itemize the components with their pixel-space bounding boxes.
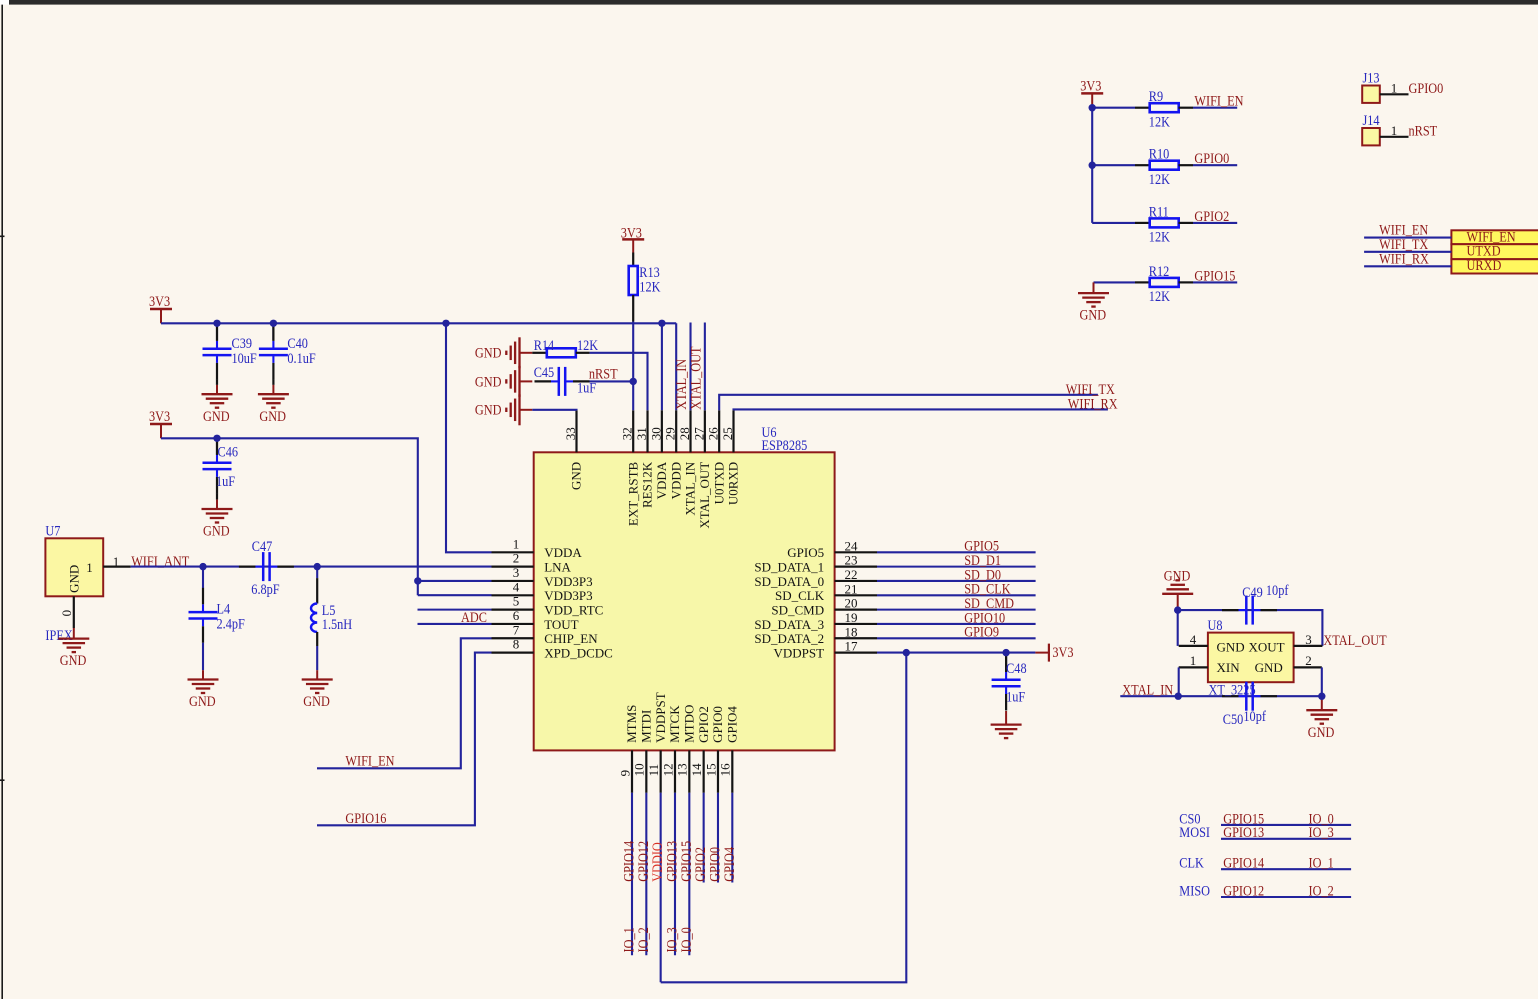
svg-text:U8: U8 <box>1208 617 1223 633</box>
svg-text:3V3: 3V3 <box>149 408 170 424</box>
svg-text:GND: GND <box>1308 724 1335 740</box>
svg-text:20: 20 <box>845 596 858 611</box>
svg-text:GPIO12: GPIO12 <box>1223 882 1264 898</box>
svg-text:C40: C40 <box>287 335 308 351</box>
svg-text:R14: R14 <box>534 337 555 353</box>
svg-text:C50: C50 <box>1223 711 1244 727</box>
svg-text:IO_3: IO_3 <box>1309 824 1334 840</box>
svg-text:26: 26 <box>706 427 721 441</box>
svg-text:WIFI_EN: WIFI_EN <box>1194 93 1243 109</box>
svg-text:VDDA: VDDA <box>544 545 582 560</box>
svg-text:1: 1 <box>113 554 120 569</box>
svg-text:3V3: 3V3 <box>621 224 642 240</box>
svg-text:IO_0: IO_0 <box>678 927 694 952</box>
svg-text:TOUT: TOUT <box>544 617 578 632</box>
svg-text:1.5nH: 1.5nH <box>322 616 352 632</box>
svg-text:12K: 12K <box>1149 171 1170 187</box>
svg-text:21: 21 <box>845 581 858 596</box>
svg-text:R10: R10 <box>1149 145 1170 161</box>
svg-text:XTAL_OUT: XTAL_OUT <box>1323 632 1387 648</box>
svg-text:U0TXD: U0TXD <box>711 462 726 505</box>
svg-text:SD_DATA_3: SD_DATA_3 <box>754 617 824 632</box>
svg-text:GPIO16: GPIO16 <box>345 810 386 826</box>
svg-text:XT_3225: XT_3225 <box>1209 681 1256 697</box>
svg-text:9: 9 <box>617 770 632 777</box>
svg-text:XTAL_OUT: XTAL_OUT <box>687 346 703 410</box>
svg-text:R12: R12 <box>1149 263 1170 279</box>
svg-text:13: 13 <box>675 763 690 776</box>
svg-text:1uF: 1uF <box>216 473 235 489</box>
svg-text:1uF: 1uF <box>1006 688 1025 704</box>
svg-text:WIFI_EN: WIFI_EN <box>345 752 394 768</box>
svg-text:12K: 12K <box>1149 113 1170 129</box>
svg-text:WIFI_RX: WIFI_RX <box>1379 250 1429 266</box>
svg-text:VDDD: VDDD <box>668 462 683 500</box>
svg-text:J13: J13 <box>1363 69 1380 85</box>
svg-text:GPIO4: GPIO4 <box>725 706 740 743</box>
svg-text:XTAL_IN: XTAL_IN <box>683 461 698 515</box>
svg-text:RES12K: RES12K <box>640 461 655 508</box>
svg-text:1: 1 <box>86 560 93 575</box>
svg-text:IPEX: IPEX <box>45 627 72 643</box>
svg-text:MTDI: MTDI <box>639 710 654 743</box>
svg-text:GND: GND <box>189 693 216 709</box>
svg-text:4: 4 <box>513 579 520 594</box>
svg-text:1: 1 <box>513 536 520 551</box>
svg-text:VDDA: VDDA <box>654 461 669 499</box>
svg-text:MOSI: MOSI <box>1179 824 1210 840</box>
svg-text:IO_2: IO_2 <box>635 927 651 952</box>
svg-text:24: 24 <box>845 538 859 553</box>
svg-text:GND: GND <box>203 522 230 538</box>
svg-text:2.4pF: 2.4pF <box>217 615 246 631</box>
svg-text:GND: GND <box>1080 307 1107 323</box>
svg-text:1uF: 1uF <box>577 379 596 395</box>
svg-text:GND: GND <box>60 652 87 668</box>
svg-text:1: 1 <box>1190 653 1197 668</box>
svg-text:ADC: ADC <box>461 609 487 625</box>
svg-text:XPD_DCDC: XPD_DCDC <box>544 645 613 660</box>
svg-text:6: 6 <box>513 608 520 623</box>
svg-text:31: 31 <box>634 427 649 440</box>
svg-text:VDD_RTC: VDD_RTC <box>544 602 603 617</box>
svg-text:SD_CMD: SD_CMD <box>771 602 824 617</box>
svg-text:3V3: 3V3 <box>1052 644 1073 660</box>
svg-text:GPIO5: GPIO5 <box>787 545 824 560</box>
svg-text:XIN: XIN <box>1217 660 1241 675</box>
svg-text:C45: C45 <box>534 364 555 380</box>
svg-text:10: 10 <box>632 763 647 776</box>
svg-text:7: 7 <box>513 622 520 637</box>
svg-text:U7: U7 <box>45 522 60 538</box>
svg-text:0.1uF: 0.1uF <box>287 350 316 366</box>
svg-text:GND: GND <box>475 402 502 418</box>
svg-text:C49: C49 <box>1242 584 1263 600</box>
svg-text:SD_DATA_0: SD_DATA_0 <box>754 574 824 589</box>
svg-text:8: 8 <box>513 637 520 652</box>
svg-text:14: 14 <box>689 763 704 777</box>
svg-text:3: 3 <box>513 565 520 580</box>
svg-text:1: 1 <box>1391 81 1398 96</box>
svg-text:R9: R9 <box>1149 88 1163 104</box>
svg-text:LNA: LNA <box>544 559 571 574</box>
svg-text:nRST: nRST <box>1409 122 1438 138</box>
svg-text:CHIP_EN: CHIP_EN <box>544 631 598 646</box>
svg-text:GND: GND <box>303 693 330 709</box>
svg-text:12K: 12K <box>639 278 660 294</box>
svg-text:32: 32 <box>620 427 635 440</box>
svg-text:WIFI_RX: WIFI_RX <box>1068 395 1118 411</box>
svg-text:19: 19 <box>845 610 858 625</box>
svg-text:SD_DATA_2: SD_DATA_2 <box>754 631 824 646</box>
svg-text:C48: C48 <box>1006 660 1027 676</box>
svg-text:C39: C39 <box>232 335 253 351</box>
svg-text:GPIO15: GPIO15 <box>1194 267 1235 283</box>
svg-text:30: 30 <box>648 427 663 440</box>
svg-text:3: 3 <box>1305 632 1312 647</box>
svg-text:10uF: 10uF <box>232 350 258 366</box>
svg-text:MISO: MISO <box>1179 882 1210 898</box>
svg-text:GND: GND <box>569 462 584 490</box>
svg-text:GND: GND <box>66 565 81 593</box>
svg-text:GPIO0: GPIO0 <box>710 706 725 743</box>
svg-text:IO_2: IO_2 <box>1309 882 1334 898</box>
svg-text:22: 22 <box>845 567 858 582</box>
svg-text:GPIO2: GPIO2 <box>696 706 711 743</box>
svg-text:VDDPST: VDDPST <box>653 692 668 743</box>
svg-text:2: 2 <box>513 551 520 566</box>
svg-text:XTAL_IN: XTAL_IN <box>1122 681 1173 697</box>
svg-text:3V3: 3V3 <box>1080 77 1101 93</box>
svg-text:11: 11 <box>646 764 661 777</box>
svg-text:GPIO4: GPIO4 <box>721 847 737 882</box>
svg-text:XOUT: XOUT <box>1249 640 1285 655</box>
svg-text:2: 2 <box>1305 653 1312 668</box>
svg-text:VDD3P3: VDD3P3 <box>544 574 592 589</box>
svg-text:12: 12 <box>660 763 675 776</box>
svg-text:16: 16 <box>718 763 733 777</box>
svg-text:GPIO13: GPIO13 <box>1223 824 1264 840</box>
svg-text:15: 15 <box>703 763 718 776</box>
svg-text:MTCK: MTCK <box>667 705 682 743</box>
svg-text:6.8pF: 6.8pF <box>251 581 280 597</box>
svg-text:MTMS: MTMS <box>624 705 639 743</box>
svg-text:IO_1: IO_1 <box>1309 854 1334 870</box>
svg-text:GPIO9: GPIO9 <box>964 624 999 640</box>
svg-text:29: 29 <box>663 427 678 440</box>
svg-text:R11: R11 <box>1149 203 1169 219</box>
svg-text:J14: J14 <box>1363 112 1380 128</box>
svg-text:0: 0 <box>59 610 74 617</box>
svg-text:U0RXD: U0RXD <box>726 462 741 505</box>
svg-text:SD_DATA_1: SD_DATA_1 <box>754 559 824 574</box>
svg-text:10pf: 10pf <box>1266 582 1289 598</box>
svg-text:GPIO14: GPIO14 <box>1223 854 1264 870</box>
svg-text:10pf: 10pf <box>1243 708 1266 724</box>
svg-text:28: 28 <box>677 427 692 440</box>
svg-text:URXD: URXD <box>1467 257 1502 273</box>
svg-text:CLK: CLK <box>1179 854 1204 870</box>
svg-text:GND: GND <box>1217 640 1245 655</box>
svg-text:12K: 12K <box>577 337 598 353</box>
svg-text:GND: GND <box>475 345 502 361</box>
svg-text:SD_CLK: SD_CLK <box>775 588 825 603</box>
svg-text:C47: C47 <box>252 538 273 554</box>
svg-text:12K: 12K <box>1149 288 1170 304</box>
svg-text:EXT_RSTB: EXT_RSTB <box>625 461 640 526</box>
svg-text:C46: C46 <box>218 443 239 459</box>
svg-text:XTAL_OUT: XTAL_OUT <box>697 462 712 529</box>
svg-text:12K: 12K <box>1149 228 1170 244</box>
svg-text:GPIO0: GPIO0 <box>1409 80 1444 96</box>
svg-text:MTDO: MTDO <box>682 705 697 743</box>
svg-text:33: 33 <box>563 427 578 440</box>
svg-text:5: 5 <box>513 594 520 609</box>
svg-text:GND: GND <box>1255 660 1283 675</box>
svg-text:1: 1 <box>1391 123 1398 138</box>
svg-text:18: 18 <box>845 624 858 639</box>
svg-text:GND: GND <box>203 408 230 424</box>
svg-text:25: 25 <box>720 427 735 440</box>
svg-text:VDDPST: VDDPST <box>774 645 825 660</box>
svg-text:17: 17 <box>845 639 859 654</box>
svg-text:23: 23 <box>845 553 858 568</box>
svg-text:VDD3P3: VDD3P3 <box>544 588 592 603</box>
svg-text:ESP8285: ESP8285 <box>762 437 808 453</box>
svg-text:GPIO0: GPIO0 <box>1194 150 1229 166</box>
svg-text:GPIO2: GPIO2 <box>1194 208 1229 224</box>
svg-text:3V3: 3V3 <box>149 293 170 309</box>
svg-text:GND: GND <box>475 373 502 389</box>
svg-text:27: 27 <box>691 427 706 441</box>
svg-text:4: 4 <box>1190 632 1197 647</box>
svg-text:GND: GND <box>259 408 286 424</box>
